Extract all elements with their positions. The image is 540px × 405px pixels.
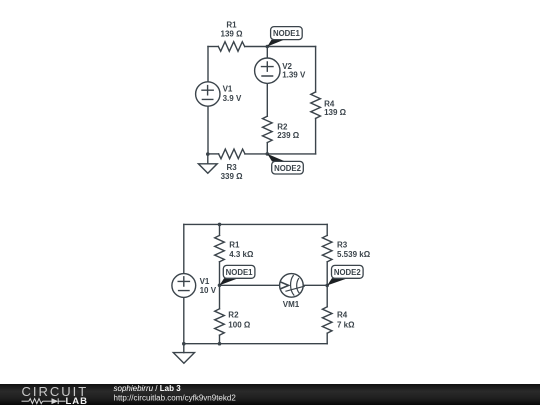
callout wedge NODE1 (top)	[267, 40, 284, 47]
svg-text:NODE2: NODE2	[274, 164, 302, 173]
voltage source V1 10V (bottom circuit)	[172, 274, 196, 298]
wire bottom horizontal right of node2	[267, 153, 315, 155]
svg-text:R1: R1	[226, 20, 237, 29]
resistor R1 (bottom circuit, 4.3k)	[215, 235, 225, 261]
wire middle branch upper (node1 to V2)	[266, 47, 268, 59]
resistor R4 (top circuit, 139 ohm)	[311, 92, 321, 118]
wire top horizontal left of R1	[208, 46, 218, 48]
ground (bottom circuit)	[183, 344, 185, 353]
wire middle rail below R2	[219, 335, 221, 344]
callout wedge NODE2 (top)	[267, 154, 285, 162]
svg-text:R2: R2	[228, 311, 239, 320]
node dot bottom junction (bottom circuit)	[218, 342, 222, 346]
wire top horizontal right of R1 to right rail	[245, 46, 316, 48]
label box NODE2 (top)	[272, 161, 304, 174]
svg-text:4.3 kΩ: 4.3 kΩ	[229, 250, 254, 259]
label box NODE2 (bottom)	[332, 265, 364, 278]
node dot NODE2 (bottom)	[325, 284, 329, 288]
wire right rail between R3 and node2	[326, 262, 328, 286]
svg-text:V1: V1	[223, 85, 233, 94]
wire middle rail above R1	[219, 224, 221, 235]
resistor R2 (top circuit, 239 ohm)	[263, 116, 273, 142]
svg-text:7 kΩ: 7 kΩ	[337, 321, 355, 330]
wire top horizontal (bottom circuit)	[184, 223, 327, 225]
label box NODE1 (bottom)	[223, 265, 255, 278]
svg-text:139 Ω: 139 Ω	[221, 30, 244, 39]
voltmeter VM1	[280, 274, 304, 298]
svg-text:1.39 V: 1.39 V	[282, 71, 306, 80]
label box NODE1 (top)	[271, 27, 303, 40]
svg-text:R2: R2	[277, 122, 288, 131]
svg-text:sophiebirru / Lab 3: sophiebirru / Lab 3	[114, 384, 182, 393]
voltage source V1 3.9V (top circuit)	[196, 82, 220, 106]
wire middle branch lower	[266, 143, 268, 154]
wire bottom horizontal left of R3	[208, 153, 219, 155]
svg-text:100 Ω: 100 Ω	[228, 321, 251, 330]
resistor R1 (top circuit, 139 ohm)	[218, 42, 244, 52]
resistor R3 (top circuit, 339 ohm)	[219, 149, 245, 159]
wire bottom horizontal node2 to R3	[245, 153, 267, 155]
resistor R4 (bottom circuit, 7k)	[322, 307, 332, 333]
wire left rail (bottom circuit)	[183, 224, 185, 343]
svg-text:NODE1: NODE1	[226, 268, 254, 277]
svg-text:NODE2: NODE2	[334, 268, 362, 277]
svg-text:http://circuitlab.com/cyfk9vn9: http://circuitlab.com/cyfk9vn9tekd2	[114, 393, 237, 402]
svg-text:R3: R3	[337, 240, 348, 249]
wire right rail above R3	[326, 224, 328, 235]
callout wedge NODE1 (bottom)	[220, 278, 239, 285]
wire middle branch between V2 and R2	[266, 84, 268, 117]
resistor R2 (bottom circuit, 100 ohm)	[215, 309, 225, 335]
svg-text:V1: V1	[200, 277, 210, 286]
svg-text:3.9 V: 3.9 V	[223, 94, 242, 103]
wire right rail lower	[315, 118, 317, 153]
wire right rail node2 to R4	[326, 285, 328, 306]
svg-text:NODE1: NODE1	[273, 29, 301, 38]
node dot top junction (bottom circuit)	[218, 223, 222, 227]
voltage source V2 1.39V (top circuit)	[255, 58, 280, 83]
node dot ground junction (bottom circuit)	[182, 342, 186, 346]
callout wedge NODE2 (bottom)	[327, 278, 348, 285]
wire middle rail node1 to R2	[219, 285, 221, 309]
node dot NODE1 (bottom)	[218, 284, 222, 288]
svg-text:R3: R3	[226, 163, 237, 172]
svg-text:LAB: LAB	[66, 396, 89, 405]
node dot ground junction (top)	[206, 152, 210, 156]
wire middle rail between R1 and node1	[219, 262, 221, 286]
wire top-left rail (top circuit)	[207, 47, 209, 155]
logo schematic: wire-resistor-diode	[22, 398, 66, 404]
resistor R3 (bottom circuit, 5.539k)	[322, 235, 332, 261]
svg-text:239 Ω: 239 Ω	[277, 131, 300, 140]
svg-text:R1: R1	[229, 240, 240, 249]
svg-text:139 Ω: 139 Ω	[324, 108, 347, 117]
ground (top circuit)	[207, 154, 209, 164]
wire right rail below R4	[326, 333, 328, 344]
wire bottom horizontal (bottom circuit)	[184, 343, 327, 345]
wire right rail upper (to R4)	[315, 47, 317, 93]
node dot NODE2 (top)	[266, 152, 270, 156]
node dot NODE1 (top)	[266, 45, 270, 49]
svg-text:5.539 kΩ: 5.539 kΩ	[337, 250, 371, 259]
svg-text:339 Ω: 339 Ω	[221, 172, 244, 181]
wire middle horizontal through voltmeter	[220, 284, 328, 286]
svg-text:VM1: VM1	[283, 300, 300, 309]
svg-text:R4: R4	[337, 311, 348, 320]
svg-text:10 V: 10 V	[200, 286, 217, 295]
